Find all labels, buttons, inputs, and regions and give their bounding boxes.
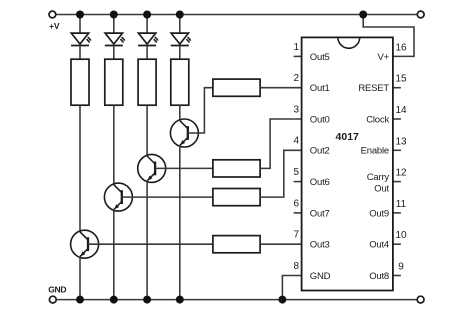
svg-text:Out9: Out9 — [369, 208, 389, 219]
wire: resistor R2 to Q2 collector — [113, 105, 115, 185]
ground terminal GND — [49, 296, 56, 303]
wire: Q4 base to resistor R8 — [188, 88, 213, 133]
transistor Q3 — [138, 154, 166, 182]
junction on bottom rail at pin 8 wire — [278, 296, 286, 304]
junction on top rail, column 2 — [110, 11, 118, 19]
svg-text:Clock: Clock — [366, 114, 389, 125]
svg-text:8: 8 — [294, 261, 300, 272]
svg-text:Out7: Out7 — [310, 208, 330, 219]
pin 5 stub — [294, 181, 302, 183]
pin 14 stub — [393, 118, 401, 120]
svg-text:4: 4 — [294, 136, 300, 147]
wire: column 1 anode drop from top rail — [79, 15, 81, 34]
LED D3 — [138, 33, 158, 45]
pin 11 stub — [393, 212, 401, 214]
svg-text:Out5: Out5 — [310, 52, 330, 63]
wire: Q1 base to resistor R5 — [88, 243, 213, 245]
svg-text:Enable: Enable — [361, 146, 389, 157]
wire: column 3 anode drop from top rail — [146, 15, 148, 34]
wire: GND pin 8 to bottom rail — [282, 276, 301, 300]
svg-text:13: 13 — [395, 136, 407, 147]
svg-text:9: 9 — [398, 262, 404, 273]
svg-text:RESET: RESET — [358, 83, 389, 94]
wire: +V top supply rail — [56, 14, 417, 16]
resistor R5 (Q1 base) — [213, 236, 260, 253]
svg-text:11: 11 — [396, 199, 407, 210]
svg-text:Out0: Out0 — [310, 114, 330, 125]
svg-text:16: 16 — [395, 42, 407, 53]
svg-text:14: 14 — [395, 105, 407, 116]
wire: resistor R3 to Q3 collector — [146, 105, 148, 156]
junction on bottom rail, column 3 — [143, 296, 151, 304]
LED D1 — [71, 33, 91, 45]
wire: column 2 anode drop from top rail — [113, 15, 115, 34]
svg-text:+V: +V — [49, 21, 60, 31]
wire: LED D3 cathode to resistor R3 — [146, 46, 148, 60]
pin 9 stub — [393, 275, 401, 277]
svg-text:10: 10 — [395, 230, 407, 241]
IC U1 notch — [338, 37, 360, 48]
transistor Q2 — [104, 183, 132, 211]
wire: Q3 base to resistor R7 — [155, 167, 213, 169]
svg-text:15: 15 — [395, 74, 407, 85]
wire: Q3 emitter to bottom rail — [146, 181, 148, 300]
wire: Q4 emitter to bottom rail — [179, 145, 181, 299]
junction on bottom rail, column 2 — [110, 296, 118, 304]
svg-text:4017: 4017 — [336, 131, 360, 143]
wire: Q2 base to resistor R6 — [122, 196, 213, 198]
svg-text:1: 1 — [294, 42, 300, 53]
transistor Q4 — [170, 119, 198, 147]
wire: LED D2 cathode to resistor R2 — [113, 46, 115, 60]
resistor R3 (LED series) — [138, 59, 156, 105]
svg-text:Out2: Out2 — [310, 146, 330, 157]
pin 12 stub — [393, 181, 401, 183]
resistor R1 (LED series) — [71, 59, 89, 105]
wire: column 4 anode drop from top rail — [179, 15, 181, 34]
pin 15 stub — [393, 87, 401, 89]
resistor R8 (Q4 base) — [213, 79, 260, 96]
transistor Q1 — [71, 230, 99, 258]
wire: resistor R7 to pin 3 Out0 — [260, 119, 302, 168]
wire: Q2 emitter to bottom rail — [113, 210, 115, 300]
wire: V+ pin 16 to top rail — [363, 15, 414, 57]
svg-text:Out1: Out1 — [310, 83, 330, 94]
wire: resistor R5 to pin 7 Out3 — [260, 243, 302, 245]
wire: resistor R4 to Q4 collector — [179, 105, 181, 120]
pin label Carry Out — [367, 172, 390, 195]
svg-text:6: 6 — [294, 198, 300, 209]
wire: resistor R8 to pin 2 Out1 — [260, 87, 302, 89]
svg-text:Out3: Out3 — [310, 240, 330, 251]
svg-text:GND: GND — [48, 284, 66, 294]
resistor R6 (Q2 base) — [213, 189, 260, 206]
wire: LED D4 cathode to resistor R4 — [179, 46, 181, 60]
junction on top rail, column 3 — [143, 11, 151, 19]
svg-text:Out: Out — [374, 184, 389, 195]
junction on bottom rail, column 4 — [176, 296, 184, 304]
pin 6 stub — [294, 212, 302, 214]
svg-text:Out8: Out8 — [369, 271, 389, 282]
svg-text:3: 3 — [294, 104, 300, 115]
LED D2 — [105, 33, 125, 45]
IC U1 4017 body — [302, 37, 393, 290]
wire: GND bottom rail — [56, 299, 417, 301]
pin 10 stub — [393, 243, 401, 245]
wire: LED D1 cathode to resistor R1 — [79, 46, 81, 60]
svg-text:12: 12 — [395, 168, 407, 179]
svg-text:GND: GND — [310, 271, 331, 282]
junction on top rail, column 4 — [176, 11, 184, 19]
junction on top rail at V+ wire — [359, 11, 367, 19]
svg-text:5: 5 — [294, 167, 300, 178]
pin 13 stub — [393, 149, 401, 151]
junction on top rail, column 1 — [76, 11, 84, 19]
svg-text:Out6: Out6 — [310, 177, 330, 188]
resistor R7 (Q3 base) — [213, 160, 260, 177]
bottom right output terminal — [417, 296, 424, 303]
svg-text:Carry: Carry — [367, 172, 390, 183]
pin 1 stub — [294, 55, 302, 57]
svg-text:V+: V+ — [378, 52, 390, 63]
wire: resistor R6 to pin 4 Out2 — [260, 150, 302, 197]
svg-text:2: 2 — [294, 73, 300, 84]
LED D4 — [171, 33, 191, 45]
wire: Q1 emitter to bottom rail — [79, 257, 81, 300]
svg-text:7: 7 — [294, 230, 300, 241]
wire: resistor R1 to Q1 collector — [79, 105, 81, 232]
resistor R2 (LED series) — [105, 59, 123, 105]
junction on bottom rail, column 1 — [76, 296, 84, 304]
resistor R4 (LED series) — [171, 59, 189, 105]
+V terminal — [49, 11, 56, 18]
top right output terminal — [417, 11, 424, 18]
svg-text:Out4: Out4 — [369, 240, 389, 251]
